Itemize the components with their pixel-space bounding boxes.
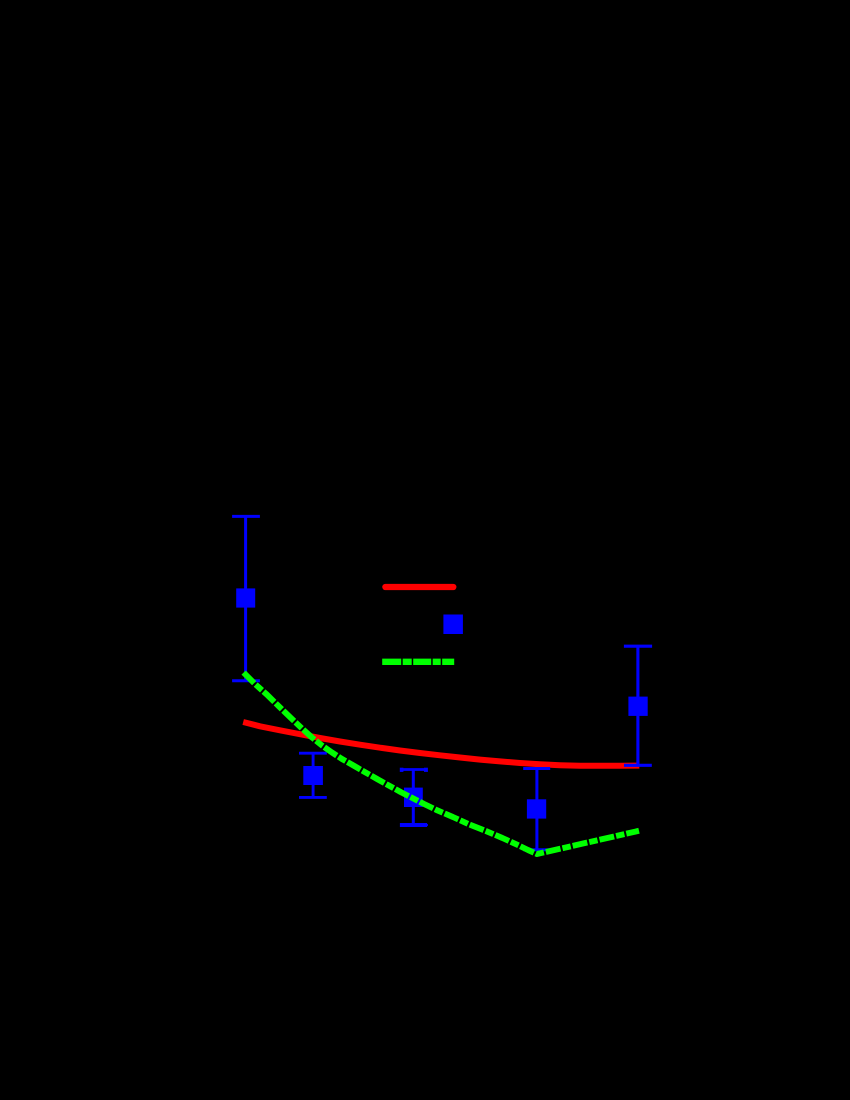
legend red line sample [385,584,453,590]
data point 1 error bar [232,516,260,680]
legend blue square sample [443,615,463,635]
data point 2 error bar [299,753,327,797]
data point 1 marker [236,588,255,607]
green dashed curve (theory line 2) [244,673,639,854]
data point 5 error bar [624,646,652,765]
data point 3 marker [404,788,423,807]
data point 5 marker [628,697,647,716]
data point 2 marker [303,766,323,785]
legend green dashed sample [382,659,456,665]
red curve (theory line 1) [243,722,639,766]
data point 4 error bar [523,769,550,850]
data point 3 error bar [400,770,428,826]
data point 4 marker [527,799,546,818]
data point 3 cap end ticks [400,768,428,826]
